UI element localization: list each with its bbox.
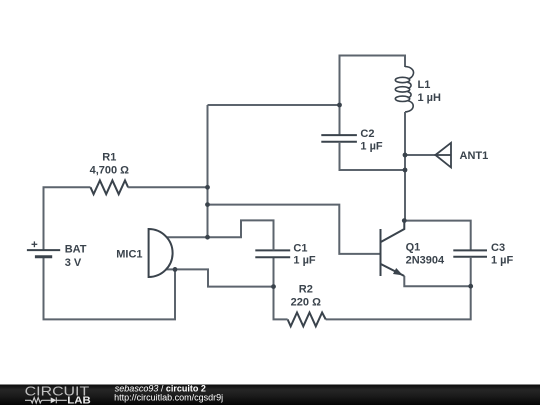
transistor Q1 — [381, 221, 405, 276]
capacitor C2 — [321, 135, 357, 142]
wire ground loop — [44, 257, 176, 320]
svg-text:4,700 Ω: 4,700 Ω — [90, 165, 130, 177]
wire collector to C3 — [404, 221, 470, 251]
wire C3 bottom stub — [470, 257, 472, 287]
wire C3 node down to R2 — [326, 286, 471, 319]
svg-text:R1: R1 — [102, 152, 116, 164]
svg-text:LAB: LAB — [67, 395, 90, 405]
logo CIRCUIT text — [25, 383, 90, 398]
svg-text:1 µF: 1 µF — [293, 255, 316, 267]
svg-text:C2: C2 — [360, 128, 374, 140]
svg-text:C3: C3 — [491, 242, 505, 254]
label C3 value — [491, 242, 514, 266]
svg-text:2N3904: 2N3904 — [406, 254, 445, 266]
label C1 value — [293, 242, 316, 266]
logo LAB text — [67, 395, 90, 405]
wire battery positive to R1 — [44, 187, 91, 251]
wire tank top loop — [340, 56, 406, 106]
wire antenna feed — [405, 154, 435, 156]
svg-text:http://circuitlab.com/cgsdr9j: http://circuitlab.com/cgsdr9j — [114, 392, 223, 402]
svg-text:220 Ω: 220 Ω — [291, 297, 321, 309]
svg-text:ANT1: ANT1 — [460, 150, 489, 162]
wire mic top terminal — [167, 236, 208, 238]
wire base feed — [208, 205, 381, 254]
label C2 value — [360, 128, 383, 153]
svg-text:BAT: BAT — [65, 244, 87, 256]
inductor L1 — [395, 67, 413, 113]
wire rail vertical — [207, 105, 209, 237]
wire tank right branch — [404, 112, 406, 221]
wire C2 bottom to right branch — [340, 142, 406, 170]
svg-text:1 µF: 1 µF — [360, 141, 383, 153]
antenna ANT1 — [435, 143, 451, 168]
label MIC1 — [116, 249, 142, 261]
wire rail to tank — [208, 104, 340, 106]
svg-text:R2: R2 — [299, 284, 313, 296]
footer title text — [115, 384, 206, 394]
svg-text:MIC1: MIC1 — [116, 249, 142, 261]
wire R1 to rail — [128, 186, 207, 188]
capacitor C3 — [453, 250, 487, 256]
wire mic bottom terminal — [166, 268, 175, 270]
label ANT1 — [460, 150, 489, 162]
label L1 value — [418, 79, 442, 104]
svg-text:3 V: 3 V — [65, 257, 82, 269]
svg-text:1 µH: 1 µH — [418, 92, 442, 104]
node junction dots — [173, 103, 474, 289]
footer url text — [114, 392, 223, 402]
battery BAT — [27, 241, 60, 256]
microphone MIC1 — [149, 229, 173, 277]
svg-text:L1: L1 — [418, 79, 431, 91]
wire C1 bottom stub — [273, 257, 275, 286]
wire C1 top step to mic node — [208, 220, 274, 250]
wire R2 to C1 node — [274, 287, 288, 320]
wire emitter to C3 node — [404, 276, 470, 286]
resistor R2 — [288, 313, 326, 327]
capacitor C1 — [255, 250, 290, 257]
logo wire with resistor and diode — [25, 397, 67, 403]
resistor R1 — [91, 180, 129, 194]
svg-text:Q1: Q1 — [406, 242, 421, 254]
label R2 value — [291, 284, 321, 309]
label BAT value — [65, 244, 87, 269]
label Q1 value — [406, 242, 445, 267]
svg-text:C1: C1 — [293, 242, 307, 254]
svg-text:1 µF: 1 µF — [491, 254, 514, 266]
label R1 value — [90, 152, 130, 177]
footer bar — [0, 385, 540, 405]
wire C1 node to mic bottom — [175, 269, 274, 286]
wire C2 top stub — [339, 105, 341, 135]
